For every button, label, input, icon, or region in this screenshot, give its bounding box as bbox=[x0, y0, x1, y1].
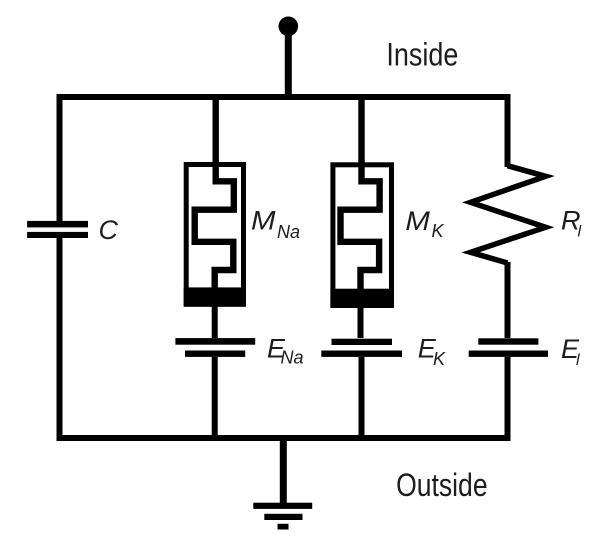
svg-text:Na: Na bbox=[277, 222, 300, 242]
svg-text:C: C bbox=[99, 215, 119, 245]
svg-text:Na: Na bbox=[281, 348, 304, 368]
svg-text:K: K bbox=[432, 221, 445, 241]
svg-text:M: M bbox=[251, 206, 276, 236]
svg-text:Outside: Outside bbox=[396, 467, 488, 503]
svg-text:l: l bbox=[578, 224, 582, 241]
svg-text:K: K bbox=[433, 349, 446, 369]
svg-text:Inside: Inside bbox=[386, 37, 458, 73]
svg-text:M: M bbox=[405, 206, 430, 236]
svg-text:l: l bbox=[576, 352, 580, 369]
